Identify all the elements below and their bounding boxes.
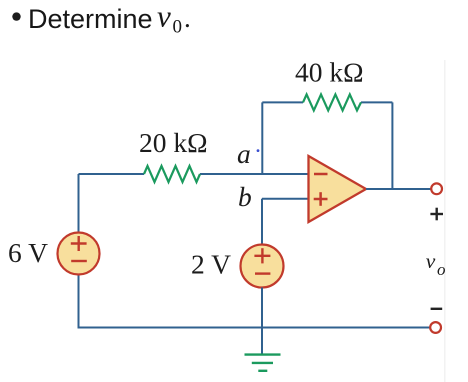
wire: feedback top left segment bbox=[262, 101, 303, 103]
source V2 2V circle bbox=[241, 245, 284, 288]
wire: feedback left vertical bbox=[261, 102, 263, 174]
op-amp U1 triangle bbox=[309, 156, 367, 222]
svg-text:6 V: 6 V bbox=[8, 237, 48, 268]
resistor 20 kOhm bbox=[144, 166, 200, 182]
wire: left top horizontal (node to 20k) bbox=[79, 173, 145, 175]
svg-text:.: . bbox=[184, 3, 191, 33]
source V1 plus sign bbox=[71, 236, 87, 251]
op-amp minus input marker bbox=[314, 173, 328, 176]
output minus label bbox=[431, 308, 443, 310]
wire: output horizontal bbox=[366, 188, 431, 190]
svg-text:Determine: Determine bbox=[28, 4, 153, 34]
resistor 40 kOhm bbox=[303, 94, 361, 110]
wire: feedback top right segment bbox=[361, 101, 392, 103]
wire: feedback right vertical bbox=[391, 102, 393, 189]
wire: ground stem bbox=[261, 328, 263, 355]
source V2 minus sign bbox=[255, 272, 270, 274]
svg-text:40 kΩ: 40 kΩ bbox=[295, 57, 364, 88]
ground bbox=[245, 355, 281, 371]
wire: left vertical above 6V source bbox=[78, 174, 80, 233]
svg-text:0: 0 bbox=[173, 17, 183, 38]
source V1 6V circle bbox=[58, 233, 100, 275]
output plus label bbox=[430, 208, 443, 221]
svg-text:o: o bbox=[437, 260, 446, 279]
stray blue dot near node a bbox=[257, 149, 260, 152]
svg-text:a: a bbox=[237, 138, 251, 169]
svg-text:20 kΩ: 20 kΩ bbox=[139, 127, 208, 158]
source V2 plus sign bbox=[254, 248, 270, 263]
wire: 20k to op-amp minus input bbox=[200, 173, 309, 175]
wire: plus input horizontal bbox=[262, 198, 309, 200]
wire: left vertical below 6V source bbox=[78, 274, 80, 329]
slide edge faint line bbox=[444, 60, 446, 382]
op-amp plus input marker bbox=[314, 192, 328, 206]
svg-text:v: v bbox=[426, 249, 436, 273]
source V1 minus sign bbox=[71, 260, 87, 262]
svg-text:2 V: 2 V bbox=[191, 249, 231, 280]
output terminal top bbox=[431, 183, 442, 194]
svg-text:v: v bbox=[157, 0, 171, 34]
output terminal bottom bbox=[430, 322, 441, 333]
title bullet bbox=[12, 12, 20, 20]
wire: bottom rail bbox=[79, 327, 431, 329]
svg-text:b: b bbox=[238, 181, 252, 212]
wire: 2V bottom stem bbox=[261, 288, 263, 329]
wire: plus input vertical down to 2V bbox=[261, 199, 263, 245]
